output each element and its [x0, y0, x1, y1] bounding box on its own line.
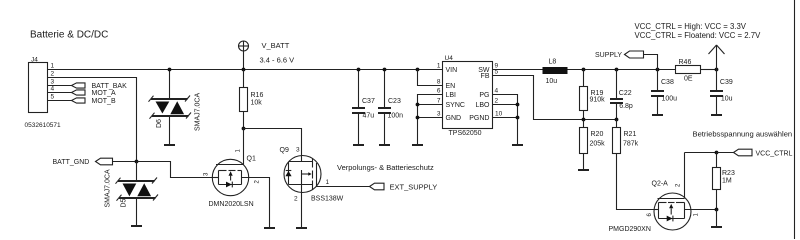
wire J4 pin1 to VIN bus — [48, 69, 443, 71]
svg-text:C23: C23 — [388, 98, 401, 105]
flag SUPPLY — [595, 51, 644, 59]
svg-text:J4: J4 — [31, 57, 38, 64]
ground below C39 — [711, 114, 722, 116]
wire node to flag — [717, 152, 734, 154]
wire Q1 pin2 to ground — [242, 178, 270, 229]
svg-text:PMGD290XN: PMGD290XN — [609, 226, 651, 233]
svg-text:SMAJ7.0CA: SMAJ7.0CA — [105, 169, 112, 207]
flag MOT_A — [72, 90, 116, 97]
transistor Q2-A PMGD290XN — [609, 153, 717, 233]
resistor R23 1M — [713, 153, 735, 210]
svg-text:TPS62050: TPS62050 — [449, 130, 482, 137]
wire J4 pin5 — [48, 100, 72, 102]
node BATT_GND junction — [135, 160, 139, 164]
svg-text:5: 5 — [51, 94, 55, 101]
ground below C37 — [353, 144, 364, 146]
svg-text:LBO: LBO — [475, 102, 490, 109]
svg-text:VIN: VIN — [446, 67, 458, 74]
svg-text:3: 3 — [296, 147, 300, 154]
node VIN/EN junction — [416, 68, 420, 72]
svg-text:FB: FB — [481, 73, 490, 80]
inductor L8 10u — [543, 59, 568, 86]
TVS diode D6 SMAJ7.0CA — [149, 70, 202, 146]
node LBO junction — [516, 103, 520, 107]
node SYNC junction — [416, 103, 420, 107]
svg-text:0532610571: 0532610571 — [25, 122, 62, 129]
svg-text:787k: 787k — [623, 140, 639, 147]
node R23/Q2 junction — [715, 208, 719, 212]
ground below D5 — [131, 225, 142, 227]
svg-text:MOT_A: MOT_A — [92, 90, 116, 97]
connector J4 — [25, 57, 62, 130]
svg-text:Q9: Q9 — [280, 147, 289, 154]
svg-text:3: 3 — [437, 111, 441, 118]
svg-text:100u: 100u — [662, 95, 678, 102]
svg-text:100n: 100n — [388, 112, 404, 119]
svg-text:R20: R20 — [591, 131, 604, 138]
svg-text:BATT_GND: BATT_GND — [53, 159, 90, 166]
node C22 bus junction — [615, 68, 619, 72]
svg-text:2: 2 — [495, 98, 499, 105]
svg-text:Batterie & DC/DC: Batterie & DC/DC — [30, 30, 108, 41]
svg-text:910k: 910k — [590, 97, 606, 104]
power symbol VCC — [709, 45, 725, 70]
node VCC_CTRL junction — [715, 151, 719, 155]
svg-text:MOT_B: MOT_B — [92, 98, 116, 105]
svg-text:Verpolungs- & Batterieschutz: Verpolungs- & Batterieschutz — [337, 163, 434, 172]
ground below D6 — [164, 144, 175, 146]
svg-text:U4: U4 — [445, 55, 454, 62]
resistor R20 205k — [580, 120, 606, 171]
capacitor C23 100n — [378, 70, 403, 146]
power symbol V_BATT — [238, 41, 294, 70]
svg-text:BATT_BAK: BATT_BAK — [92, 83, 128, 90]
node V_BATT bus junction — [242, 68, 246, 72]
svg-text:L8: L8 — [549, 59, 557, 66]
transistor Q9 BSS138W — [280, 147, 344, 203]
svg-text:10u: 10u — [546, 78, 558, 85]
sheet title — [30, 30, 108, 41]
capacitor C37 47u — [352, 70, 375, 146]
resistor R21 787k — [613, 120, 639, 154]
flag BATT_GND — [53, 158, 113, 166]
ground below R23 — [711, 226, 722, 228]
svg-text:PGND: PGND — [469, 115, 489, 122]
ground below U4 left — [412, 144, 423, 146]
wire J4 pin3 — [48, 85, 72, 87]
svg-text:EN: EN — [446, 83, 456, 90]
svg-text:4: 4 — [51, 86, 55, 93]
capacitor C22 6.8p — [610, 70, 633, 120]
svg-text:1: 1 — [326, 179, 330, 186]
svg-text:6: 6 — [437, 88, 441, 95]
svg-text:4: 4 — [495, 88, 499, 95]
svg-text:R16: R16 — [251, 92, 264, 99]
wire L8 to R46 — [568, 69, 676, 71]
sheet border right — [794, 0, 796, 239]
ground below C23 — [379, 144, 390, 146]
node R16/Q1/Q9 junction — [242, 127, 246, 131]
node VCC junction — [715, 68, 719, 72]
wire LBI/SYNC/GND tie to ground — [418, 95, 443, 146]
wire BATT_GND node to Q1 source — [137, 162, 213, 178]
wire node to ground — [716, 210, 718, 228]
svg-text:C22: C22 — [619, 90, 632, 97]
wire SUPPLY to bus — [644, 55, 658, 70]
node D6 bus junction — [168, 68, 172, 72]
wire J4 pin4 — [48, 92, 72, 94]
wire Q2 drain to VCC_CTRL node — [685, 152, 717, 154]
op-amp U4 TPS62050 — [437, 55, 503, 137]
svg-text:C39: C39 — [720, 79, 733, 86]
wire EN tie to VIN — [418, 70, 443, 86]
svg-text:VCC_CTRL: VCC_CTRL — [756, 151, 793, 158]
svg-text:1: 1 — [437, 63, 441, 70]
capacitor C39 10u — [710, 70, 733, 116]
transistor Q1 DMN2020LSN — [204, 129, 261, 209]
node GND junction — [416, 116, 420, 120]
ground below R20 — [578, 169, 589, 171]
ground below C38 — [652, 114, 663, 116]
wire Q9 source to EXT_SUPPLY — [317, 186, 370, 188]
TVS diode D5 SMAJ7.0CA — [105, 162, 159, 227]
flag VCC_CTRL — [734, 149, 793, 157]
svg-text:1M: 1M — [722, 177, 732, 184]
note VCC_CTRL high — [635, 22, 747, 31]
node PGND junction — [516, 116, 520, 120]
svg-text:2: 2 — [51, 71, 55, 78]
wire J4 pin2 to BATT_GND node — [48, 78, 137, 162]
note VCC_CTRL floatend — [635, 31, 762, 40]
svg-text:DMN2020LSN: DMN2020LSN — [209, 201, 254, 208]
svg-text:LBI: LBI — [446, 92, 457, 99]
svg-text:R21: R21 — [624, 131, 637, 138]
svg-text:R23: R23 — [722, 170, 735, 177]
node C22/R21 junction — [615, 118, 619, 122]
svg-text:SYNC: SYNC — [446, 102, 465, 109]
node R19 bus junction — [582, 68, 586, 72]
svg-text:Betriebsspannung auswählen: Betriebsspannung auswählen — [693, 129, 793, 138]
capacitor C38 100u — [651, 70, 677, 116]
wire FB to feedback node — [493, 76, 617, 120]
note Betriebsspannung — [693, 129, 793, 138]
svg-text:10k: 10k — [251, 99, 263, 106]
svg-text:VCC_CTRL = High: VCC = 3.3V: VCC_CTRL = High: VCC = 3.3V — [635, 22, 747, 31]
wire PG/LBO/PGND tie to ground — [493, 95, 518, 146]
node C23 bus junction — [383, 68, 387, 72]
resistor R19 910k — [580, 70, 606, 120]
svg-text:V_BATT: V_BATT — [262, 41, 290, 50]
ground below PGND — [512, 144, 523, 146]
svg-text:BSS138W: BSS138W — [311, 195, 344, 202]
wire Q9 gate to ground — [301, 193, 303, 229]
node C38 bus junction — [656, 68, 660, 72]
ground below Q1 — [264, 227, 275, 229]
svg-text:1: 1 — [51, 63, 55, 70]
wire SW to L8 — [493, 69, 543, 71]
node R19/R20 junction — [582, 118, 586, 122]
svg-text:SMAJ7.0CA: SMAJ7.0CA — [195, 93, 202, 131]
svg-text:47u: 47u — [363, 112, 375, 119]
svg-text:D6: D6 — [156, 119, 163, 128]
svg-text:6.8p: 6.8p — [619, 103, 633, 110]
wire BATT_GND flag to node — [113, 161, 137, 163]
flag MOT_B — [72, 98, 116, 105]
flag BATT_BAK — [72, 83, 128, 90]
svg-text:GND: GND — [446, 115, 462, 122]
flag EXT_SUPPLY — [370, 183, 438, 192]
svg-text:R46: R46 — [679, 59, 692, 66]
svg-text:C38: C38 — [661, 79, 674, 86]
svg-text:EXT_SUPPLY: EXT_SUPPLY — [390, 183, 438, 192]
wire junction to Q9 drain — [244, 129, 302, 156]
svg-text:8: 8 — [437, 79, 441, 86]
svg-text:SUPPLY: SUPPLY — [595, 52, 622, 59]
svg-text:C37: C37 — [362, 98, 375, 105]
node C37 bus junction — [357, 68, 361, 72]
svg-text:205k: 205k — [590, 140, 606, 147]
svg-text:PG: PG — [479, 92, 489, 99]
svg-text:Q1: Q1 — [247, 156, 256, 163]
wire R21 to Q2 gate — [617, 154, 655, 210]
svg-text:3: 3 — [51, 79, 55, 86]
svg-text:3.4 - 6.6 V: 3.4 - 6.6 V — [260, 56, 295, 65]
ground below Q9 — [296, 227, 307, 229]
svg-text:D5: D5 — [121, 198, 128, 207]
svg-text:7: 7 — [437, 98, 441, 105]
svg-text:0E: 0E — [684, 76, 693, 83]
resistor R46 0E — [676, 59, 717, 82]
svg-text:VCC_CTRL = Floatend: VCC = 2.7: VCC_CTRL = Floatend: VCC = 2.7V — [635, 31, 762, 40]
svg-text:2: 2 — [294, 195, 298, 202]
svg-text:10: 10 — [495, 111, 503, 118]
svg-text:Q2-A: Q2-A — [652, 181, 669, 188]
resistor R16 10k — [240, 70, 264, 129]
note Verpolungs — [337, 163, 434, 172]
svg-text:10u: 10u — [721, 95, 733, 102]
